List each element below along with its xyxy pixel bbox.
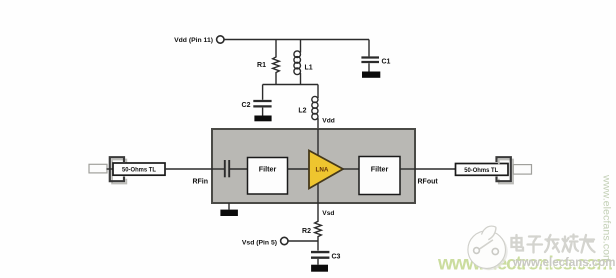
filter block 1 <box>248 158 288 195</box>
wire Vsd pin to node <box>288 240 318 242</box>
inductor L2 <box>312 85 318 130</box>
ground under C3 <box>311 265 328 272</box>
transmission line 50-Ohms TL (right) <box>456 164 509 176</box>
connector bracket left <box>110 157 124 181</box>
watermark chinese characters 电子发烧友 (hand drawn strokes) <box>512 235 596 254</box>
wire R1/L1 bottom rail <box>263 84 318 86</box>
resistor R2 <box>315 203 322 241</box>
svg-text:www.elecfans.com: www.elecfans.com <box>512 257 615 269</box>
connector bracket right <box>497 157 511 181</box>
watermark www.elecfans.com embossed <box>512 257 616 270</box>
svg-text:Vdd (Pin 11): Vdd (Pin 11) <box>174 37 213 44</box>
transmission line 50-Ohms TL (left) <box>113 163 165 175</box>
connector plug left <box>89 164 107 173</box>
wire filter1 to LNA <box>288 168 310 170</box>
connector plug right <box>513 165 531 175</box>
svg-text:Filter: Filter <box>371 164 389 173</box>
wire LNA to filter2 <box>343 168 359 170</box>
ground under box <box>220 210 238 216</box>
svg-text:RFin: RFin <box>192 179 208 186</box>
capacitor (series, input DC block) <box>225 160 248 177</box>
ground under C1 <box>362 72 380 78</box>
connector bracket left shadow <box>112 160 126 184</box>
watermark logo circle <box>468 226 508 270</box>
svg-text:Vsd (Pin 5): Vsd (Pin 5) <box>242 239 277 246</box>
capacitor C3 <box>311 252 329 265</box>
svg-text:R2: R2 <box>302 228 311 235</box>
svg-text:L2: L2 <box>298 108 306 115</box>
svg-text:LNA: LNA <box>316 167 329 174</box>
svg-text:www.elecfans.com: www.elecfans.com <box>601 174 612 264</box>
inductor L1 <box>294 40 301 85</box>
svg-text:L1: L1 <box>305 65 313 72</box>
svg-text:RFout: RFout <box>418 179 439 186</box>
wire filter2 to box edge <box>400 168 415 170</box>
svg-text:C2: C2 <box>242 102 251 109</box>
wire into box <box>212 168 224 170</box>
svg-text:50-Ohms TL: 50-Ohms TL <box>464 167 498 174</box>
wire R2 to C3 <box>317 241 319 251</box>
resistor R1 <box>273 40 280 85</box>
svg-text:C1: C1 <box>382 59 391 66</box>
wire box to TL (RFout) <box>415 168 456 170</box>
svg-text:Filter: Filter <box>259 164 277 173</box>
wire TL to box (RFin) <box>165 168 212 170</box>
wire top rail <box>224 39 369 41</box>
filter block 2 <box>359 157 400 195</box>
capacitor C1 <box>361 40 379 72</box>
amplifier block (gray box) <box>212 129 415 203</box>
terminal Vdd (Pin 11) <box>217 36 224 43</box>
wire plug to TL box <box>107 168 114 170</box>
connector bracket right shadow <box>499 160 513 184</box>
wire box bottom-left to ground <box>228 203 230 210</box>
svg-text:R1: R1 <box>257 62 266 69</box>
svg-text:Vsd: Vsd <box>322 210 334 217</box>
svg-text:Vdd: Vdd <box>322 117 334 124</box>
terminal Vsd (Pin 5) <box>281 237 288 244</box>
svg-text:50-Ohms TL: 50-Ohms TL <box>122 167 156 174</box>
op-amp LNA <box>309 151 343 189</box>
wire Vdd/Vsd vertical through box <box>317 129 319 203</box>
ground under C2 <box>254 116 271 122</box>
svg-text:C3: C3 <box>332 254 341 261</box>
capacitor C2 <box>253 85 271 116</box>
